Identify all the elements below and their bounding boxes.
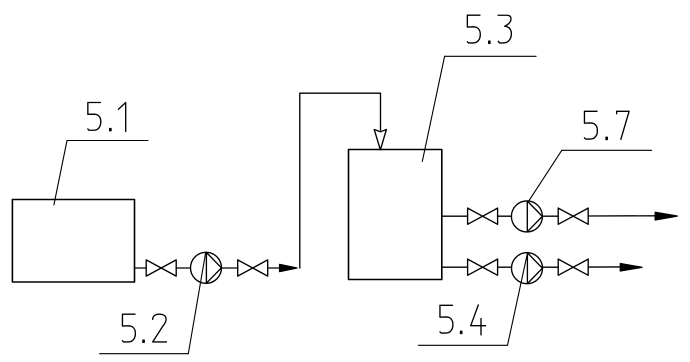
label 5.1 leader to tank: [54, 141, 67, 205]
wire P1 to valve V2: [222, 267, 238, 269]
valve V2: [238, 260, 268, 276]
tank 5.1 (left source tank): [12, 200, 134, 283]
valve V3: [468, 208, 498, 224]
label 5.4 text: [440, 305, 486, 335]
wire P2 to valve V4: [542, 215, 558, 217]
label 5.7 leader to pump P2: [528, 150, 562, 202]
label 5.4 underline: [418, 344, 507, 346]
wire V4 to upper arrow: [588, 215, 656, 217]
label 5.2 underline: [100, 353, 189, 355]
label 5.2 text: [122, 314, 166, 342]
wire tank5.3 upper outlet: [442, 215, 468, 217]
wire V2 to arrow: [268, 267, 281, 269]
label 5.1 text: [88, 103, 126, 132]
wire P3 to valve V6: [542, 266, 558, 268]
wire tank5.1 outlet to valve V1: [135, 267, 147, 269]
wire tank5.3 lower outlet: [442, 266, 468, 268]
wire V3 to pump P2: [498, 215, 512, 217]
filled arrowhead upper product line: [655, 212, 677, 220]
label 5.3 leader to tank: [422, 56, 444, 161]
valve V4: [558, 208, 588, 224]
label 5.3 underline: [445, 55, 536, 57]
label 5.1 underline: [67, 140, 148, 142]
tank 5.3 (mixer tank): [349, 150, 442, 280]
label 5.3 text: [467, 15, 511, 43]
label 5.7 text: [584, 111, 629, 139]
wire V1 to pump P1: [176, 267, 190, 269]
pump P2: [511, 201, 542, 232]
wire V6 to lower arrow: [588, 266, 621, 268]
label 5.7 underline: [562, 149, 652, 151]
filled arrowhead lower product line: [620, 264, 642, 272]
valve V6: [558, 259, 588, 275]
hollow arrowhead into tank 5.3: [374, 130, 386, 150]
pump P1: [191, 252, 222, 283]
wire V5 to pump P3: [498, 266, 512, 268]
valve V1: [146, 260, 176, 276]
label 5.4 leader to pump P3: [508, 255, 528, 345]
pump P3: [512, 253, 543, 284]
label 5.2 leader to pump P1: [188, 252, 205, 353]
filled arrowhead into riser: [280, 264, 297, 271]
valve V5: [468, 259, 498, 275]
wire riser up and over to tank 5.3: [300, 93, 381, 268]
